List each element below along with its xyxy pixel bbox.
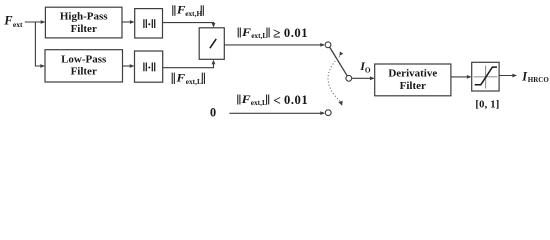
- block: saturation [0,1]: [472, 62, 499, 91]
- wire: divider output to switch top contact: [224, 43, 325, 47]
- block: Low-Pass Filter: [45, 50, 123, 82]
- svg-text:High-Pass: High-Pass: [60, 11, 108, 23]
- svg-text:0: 0: [210, 105, 216, 119]
- node: switch top contact: [325, 42, 331, 48]
- wire: F_ext input to High-Pass Filter: [25, 20, 46, 24]
- svg-text:[0, 1]: [0, 1]: [475, 99, 499, 110]
- wire: norm N2 output to divider bottom input: [163, 60, 216, 68]
- block: High-Pass Filter: [45, 7, 122, 38]
- svg-text:ext,H: ext,H: [185, 9, 202, 18]
- svg-text:Low-Pass: Low-Pass: [61, 53, 107, 65]
- svg-text:ext,L: ext,L: [186, 77, 202, 86]
- arc arrowhead (bottom, toward bottom contact): [338, 101, 342, 106]
- block: norm N2 (||.||): [135, 51, 163, 82]
- wire: input branch down to Low-Pass Filter: [35, 22, 45, 68]
- switch lever (selecting top contact): [330, 47, 347, 75]
- label: output signal I_HRCO: [521, 70, 549, 85]
- input signal label F_ext: [3, 14, 23, 30]
- svg-text:Filter: Filter: [400, 80, 426, 92]
- wire: constant 0 to switch bottom contact: [229, 111, 325, 115]
- svg-text:Filter: Filter: [71, 23, 97, 35]
- svg-text:<: <: [273, 93, 281, 108]
- node: switch common pole: [346, 75, 352, 81]
- wire: switch common pole to Derivative Filter: [352, 76, 375, 80]
- block: norm N1 (||.||): [135, 9, 163, 38]
- wire: saturation to output I_HRCO: [499, 74, 517, 78]
- block: divider (/): [199, 28, 224, 60]
- svg-text:ext,L: ext,L: [251, 31, 267, 40]
- svg-text:Derivative: Derivative: [388, 68, 437, 80]
- svg-text:HRCO: HRCO: [528, 76, 550, 84]
- svg-text:0.01: 0.01: [284, 26, 308, 40]
- svg-text:≥: ≥: [273, 26, 280, 41]
- svg-text:F: F: [240, 92, 250, 106]
- label: condition norm F_ext,L < 0.01: [238, 92, 308, 108]
- svg-text:0.01: 0.01: [284, 93, 308, 107]
- arc arrowhead (top, toward lever): [339, 52, 343, 56]
- svg-text:O: O: [365, 65, 371, 74]
- label: switch output signal I_O: [359, 59, 371, 74]
- svg-text:ext: ext: [13, 20, 23, 29]
- wire: Low-Pass Filter to norm block N2: [123, 64, 135, 68]
- switch travel dashed arc: [328, 56, 341, 102]
- label: norm of F_ext,L: [172, 72, 204, 85]
- svg-text:F: F: [175, 72, 185, 84]
- block: Derivative Filter: [375, 64, 451, 96]
- node: switch bottom contact: [325, 110, 331, 116]
- label: norm of F_ext,H: [173, 5, 204, 18]
- svg-text:Filter: Filter: [71, 66, 97, 78]
- svg-text:ext,L: ext,L: [251, 98, 267, 107]
- wire: norm N1 output to divider top input: [163, 23, 216, 28]
- label: condition norm F_ext,L >= 0.01: [238, 25, 308, 41]
- svg-text:F: F: [3, 14, 13, 28]
- svg-text:F: F: [241, 25, 251, 39]
- wire: High-Pass Filter to norm block N1: [122, 20, 135, 24]
- wire: Derivative Filter to saturation block: [451, 75, 472, 79]
